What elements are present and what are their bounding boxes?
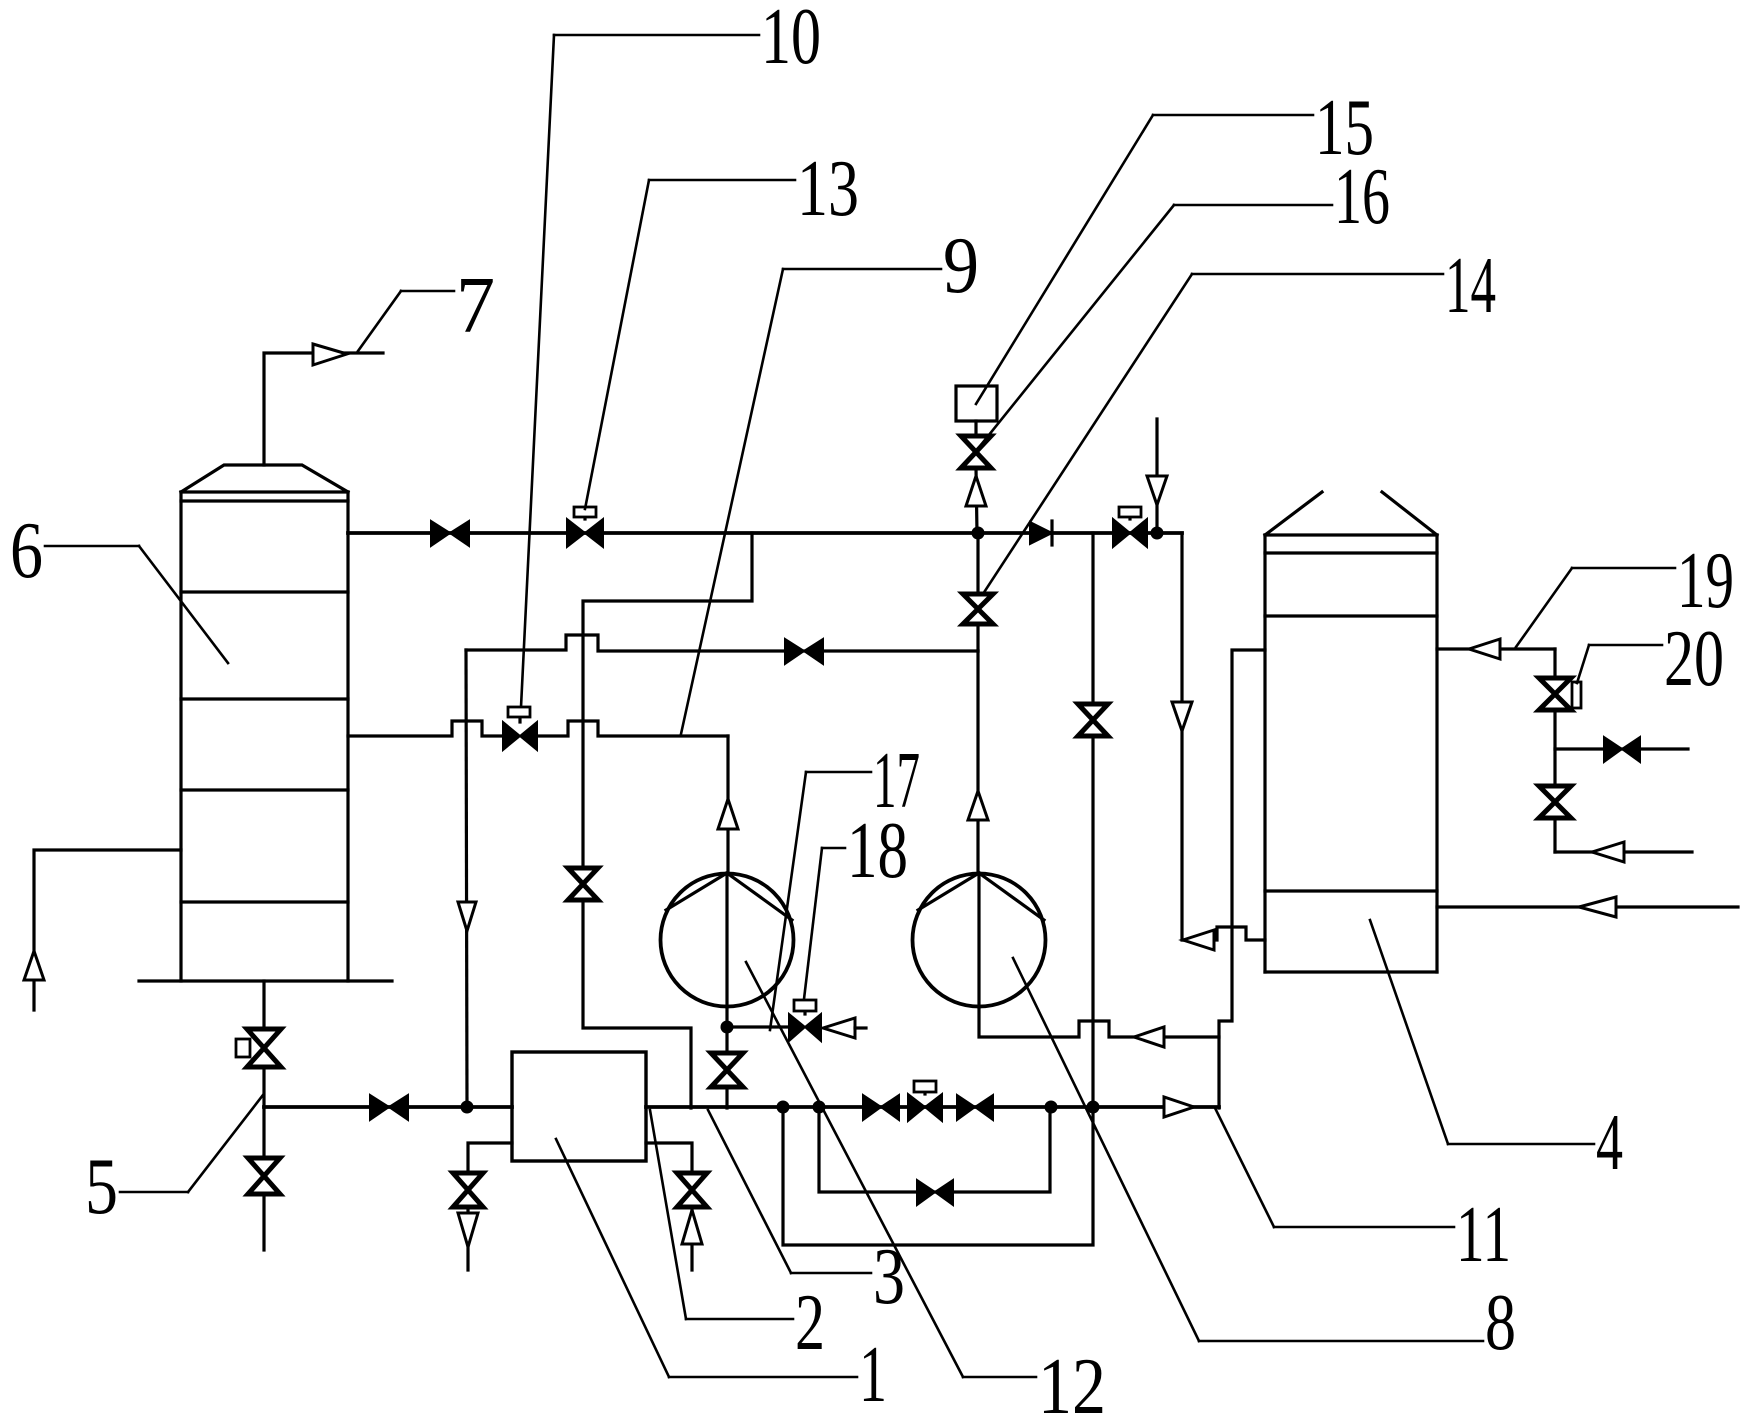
node: dot x1093 — [1087, 1101, 1100, 1114]
valve: box drain valve — [453, 1173, 483, 1207]
svg-text:16: 16 — [1334, 153, 1390, 241]
node: dot after control valve — [1151, 527, 1164, 540]
node: top pipe junction dot — [972, 527, 985, 540]
svg-text:4: 4 — [1596, 1099, 1623, 1187]
valve: lower feed valve — [1539, 786, 1571, 818]
arrow: outflow left y940 — [1183, 930, 1214, 950]
wire: drain to main line junction — [262, 1067, 265, 1107]
svg-text:1: 1 — [859, 1331, 887, 1418]
svg-text:10: 10 — [761, 0, 821, 81]
wire: valve to main line — [725, 1087, 728, 1108]
leader 9 — [681, 269, 941, 734]
wire: crossover horizontal y651 with bridge over x583 — [466, 635, 978, 651]
svg-text:9: 9 — [943, 222, 979, 310]
pump 2 internals — [918, 873, 1044, 1007]
arrow: flow left on pump2 discharge — [1134, 1027, 1164, 1047]
leader 16 — [980, 205, 1332, 446]
arrow: drain down — [458, 1213, 478, 1247]
valve 14 target: valve below junction — [963, 594, 993, 624]
svg-text:7: 7 — [456, 262, 495, 350]
wire: vessel bottom outlet y940 with bridge over x1232 — [1183, 927, 1265, 940]
svg-text:5: 5 — [85, 1143, 118, 1231]
pump 1 circle — [661, 874, 794, 1007]
wire: pump2 discharge run with bridge over x1093 — [979, 1007, 1219, 1037]
valve 13: control valve on top pipe — [567, 507, 603, 547]
wire: drain below main line — [262, 1107, 265, 1159]
wire: mid pipe from column with bridges — [348, 721, 502, 736]
valve: lower drain valve — [248, 1158, 280, 1194]
valve: main line valve a — [863, 1095, 899, 1120]
wire: box right bottom stub — [646, 1143, 692, 1172]
leader 2 — [650, 1110, 793, 1319]
arrow: up flow into valve 16 — [966, 476, 986, 506]
wire: inner bypass loop — [819, 1107, 1050, 1192]
arrow: up flow to pump2 line — [968, 791, 988, 820]
leader 4 — [1370, 920, 1594, 1144]
wire: branch to control valve 18 — [727, 1025, 788, 1028]
arrow: inflow left at valve 18 — [823, 1018, 855, 1038]
leader 5 — [120, 1095, 263, 1192]
valve: column drain valve with side tab — [236, 1029, 281, 1067]
wire: pump2 suction vertical upper — [976, 533, 979, 594]
wire: top pipe from column to right — [348, 531, 1182, 535]
leader 20 — [1577, 645, 1662, 683]
wire: vertical x1182 from top pipe corner — [1180, 533, 1183, 940]
leader 10 — [521, 35, 759, 707]
column 6 bottom skirt line — [139, 979, 392, 982]
wire: bypass lower run to main line — [583, 900, 691, 1108]
wire: drain line — [466, 1207, 469, 1270]
arrow: down flow on x1182 — [1172, 702, 1192, 731]
wire: pump1 discharge to valve — [725, 1027, 728, 1053]
wire: right feed vertical — [1553, 649, 1556, 852]
node: dot x467 on main line — [461, 1101, 474, 1114]
node: dot x783 — [777, 1101, 790, 1114]
wire: vessel left side line x1232 — [1219, 650, 1265, 1108]
column 6 body — [181, 492, 348, 981]
pump 1 internals — [666, 873, 792, 1007]
vessel 4 roof slants — [1265, 492, 1437, 535]
svg-text:8: 8 — [1485, 1279, 1516, 1367]
wire: column left outlet — [34, 850, 181, 1010]
leader 15 — [976, 115, 1313, 404]
wire: side branch y749 — [1555, 747, 1688, 750]
wire: bottom feed y852 — [1555, 850, 1692, 853]
pump 2 circle — [913, 874, 1046, 1007]
leader 6 — [45, 546, 228, 663]
svg-text:13: 13 — [797, 145, 859, 233]
leader 18 — [804, 848, 845, 999]
wire: vertical x1093 from top pipe to main line — [1091, 533, 1094, 1107]
svg-text:14: 14 — [1445, 242, 1496, 330]
instrument square above control valve 15 — [956, 386, 997, 421]
wire: box left bottom stub — [468, 1143, 512, 1172]
wire: drain end — [262, 1194, 265, 1250]
valve: x1093 vertical valve — [1078, 704, 1108, 736]
valve 16: valve under instrument — [961, 436, 991, 468]
wire: vessel lower right inlet y907 — [1437, 905, 1738, 908]
svg-text:18: 18 — [847, 807, 908, 895]
wire: column bottom drain — [262, 981, 265, 1030]
valve: crossover gate valve — [785, 639, 823, 664]
vessel 4 body — [1265, 535, 1437, 972]
column 6 internal tray lines — [181, 592, 348, 902]
wire: pump2 suction vertical lower — [976, 651, 979, 873]
valve: bypass valve — [917, 1180, 953, 1205]
svg-text:20: 20 — [1664, 615, 1724, 703]
leader 19 — [1516, 568, 1675, 647]
node: pump1 discharge dot — [721, 1021, 734, 1034]
wire: stub right of arrow — [855, 1026, 866, 1029]
arrow: inflow left into vessel — [1469, 639, 1500, 659]
valve: main line left gate valve — [370, 1095, 408, 1120]
leader 12 — [746, 962, 1036, 1377]
wire: vertical x467 from crossover to main line — [466, 650, 467, 1107]
leader 7 — [358, 291, 454, 351]
valve: box inlet valve — [677, 1173, 707, 1207]
heat exchanger box 1 — [512, 1052, 646, 1161]
wire: column top vent pipe — [264, 353, 383, 465]
wire: mid pipe right section with bridge over x583 — [538, 721, 728, 736]
leader 14 — [981, 274, 1443, 597]
valve 10: control valve on mid pipe — [503, 707, 537, 750]
arrow: up flow on pump1 suction — [718, 799, 738, 829]
valve: control valve right on top pipe — [1113, 507, 1147, 547]
valve: main line control valve b — [908, 1081, 942, 1121]
svg-text:3: 3 — [873, 1233, 905, 1321]
leader 11 — [1215, 1108, 1454, 1227]
valve: branch gate valve — [1604, 737, 1640, 762]
valve: main line valve c — [957, 1095, 993, 1120]
wire: vessel right inlet y649 — [1437, 647, 1555, 650]
arrow: flow right at main line end — [1164, 1097, 1194, 1117]
arrow: inflow left y852 — [1592, 842, 1624, 862]
arrow: inflow left y907 — [1579, 897, 1616, 917]
node: dot x819 — [813, 1101, 826, 1114]
column 6 cap — [181, 465, 348, 492]
valve: top pipe gate valve left — [431, 521, 469, 546]
wire: instrument stem — [974, 421, 977, 437]
arrow: down flow on x467 — [458, 902, 476, 931]
wire: top pipe to bypass L-connection — [583, 533, 752, 867]
leader 3 — [708, 1110, 871, 1273]
vessel 4 internal lines — [1265, 616, 1437, 891]
leader 13 — [585, 180, 795, 509]
wire: external feed from top — [1155, 419, 1158, 533]
valve: pump1 discharge valve — [711, 1053, 743, 1087]
svg-text:6: 6 — [10, 507, 43, 595]
leader 1 — [556, 1139, 857, 1377]
arrow: up flow on left outlet — [24, 951, 44, 980]
wire: outer bypass loop — [783, 1107, 1093, 1245]
wire: valve to junction — [976, 468, 977, 533]
leader 17 — [770, 772, 871, 1030]
wire: pump1 discharge — [725, 1007, 728, 1027]
wire: valve to crossover tee — [976, 624, 979, 651]
arrow: vent flow right — [313, 344, 347, 365]
wire: bottom main line left section — [264, 1105, 512, 1109]
check valve on top pipe — [1030, 521, 1052, 545]
arrow: inlet up — [682, 1210, 702, 1244]
svg-text:19: 19 — [1677, 537, 1734, 625]
valve 20 with side tab — [1539, 678, 1581, 710]
valve: bypass vertical valve x583 — [568, 868, 598, 900]
wire: bottom main line right section — [646, 1105, 1219, 1109]
valve 18: control valve — [789, 1000, 821, 1041]
svg-text:11: 11 — [1456, 1191, 1511, 1279]
svg-text:12: 12 — [1038, 1343, 1106, 1418]
leader 8 — [1013, 958, 1483, 1341]
wire: pump1 suction drop — [726, 736, 729, 873]
wire: inlet line — [690, 1207, 693, 1270]
svg-text:2: 2 — [795, 1279, 825, 1367]
node: dot x1051 — [1045, 1101, 1058, 1114]
arrow: feed down — [1147, 476, 1167, 505]
